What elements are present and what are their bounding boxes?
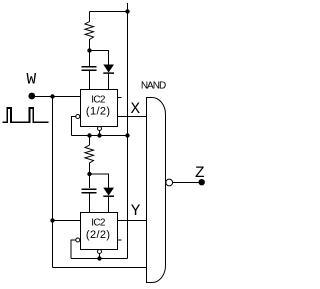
IC U1 IC2 (1/2) box [81, 90, 118, 127]
wire Y output [118, 220, 147, 222]
IC U2 IC2 (2/2) box [81, 213, 118, 250]
gate U3 NAND body [147, 98, 166, 283]
diode D2 [103, 188, 114, 213]
pin stub U1 right [118, 97, 122, 99]
diode D1 [103, 65, 114, 90]
junction dot W at U2 input [50, 218, 54, 222]
svg-text:IC2: IC2 [91, 94, 106, 105]
terminal W [28, 93, 35, 100]
wire Vcc vertical bus [127, 3, 129, 259]
resistor R1 [85, 12, 94, 51]
svg-text:(2/2): (2/2) [86, 229, 111, 241]
inverter bubble U1 bottom [98, 127, 102, 131]
wire W to NAND bottom input [53, 267, 147, 269]
junction dot Vcc top [125, 9, 129, 13]
wire U1 feedback loop left [72, 117, 76, 136]
svg-text:IC2: IC2 [91, 218, 106, 229]
junction dot W at U1 input [50, 94, 54, 98]
wire U1 bottom pin [99, 131, 101, 136]
wire rail node R1C1 return [72, 135, 128, 137]
junction dot rail1 U1 bottom [97, 133, 101, 137]
svg-text:W: W [26, 71, 36, 89]
wire rail node R2C2 return [71, 258, 128, 260]
svg-text:Y: Y [131, 202, 141, 220]
inverter bubble U1 left input [76, 115, 80, 119]
svg-text:Z: Z [195, 164, 205, 182]
terminal Z [199, 179, 205, 185]
junction dot R1 C1 D1 node [87, 48, 91, 52]
inverter bubble U2 left input [76, 238, 80, 242]
inverter bubble U3 output [166, 179, 173, 186]
wire R2 to D2 anode [90, 174, 109, 188]
capacitor C2 bottom lead [89, 193, 91, 212]
capacitor C1 top lead [89, 51, 91, 67]
capacitor C1 plates [82, 67, 97, 70]
capacitor C2 plates [82, 189, 97, 193]
wire U2 feedback loop left [71, 240, 76, 259]
wire X output [118, 116, 147, 118]
junction dot rail1 R2 [87, 133, 91, 137]
wire U2 bottom pin [99, 254, 101, 259]
inverter bubble U2 bottom [98, 250, 102, 254]
svg-text:(1/2): (1/2) [86, 106, 111, 118]
svg-text:X: X [130, 100, 140, 118]
wire R1 to D1 anode [90, 51, 109, 66]
junction dot R2 C2 D2 node [87, 172, 91, 176]
wire W input to U2 pin [53, 220, 81, 222]
input pulse waveform [3, 108, 49, 122]
svg-text:NAND: NAND [141, 81, 166, 92]
junction dot rail2 U2 bottom [97, 256, 101, 260]
wire W input to IC2 pin [35, 96, 81, 98]
junction dot rail1 Vcc bus [125, 133, 129, 137]
capacitor C2 top lead [89, 174, 91, 188]
wire W net vertical [52, 97, 54, 268]
wire top rail Vcc [90, 11, 128, 13]
resistor R2 [85, 136, 94, 175]
pin stub U2 right [118, 239, 122, 241]
wire Z output [173, 182, 199, 184]
capacitor C1 bottom lead [89, 71, 91, 89]
